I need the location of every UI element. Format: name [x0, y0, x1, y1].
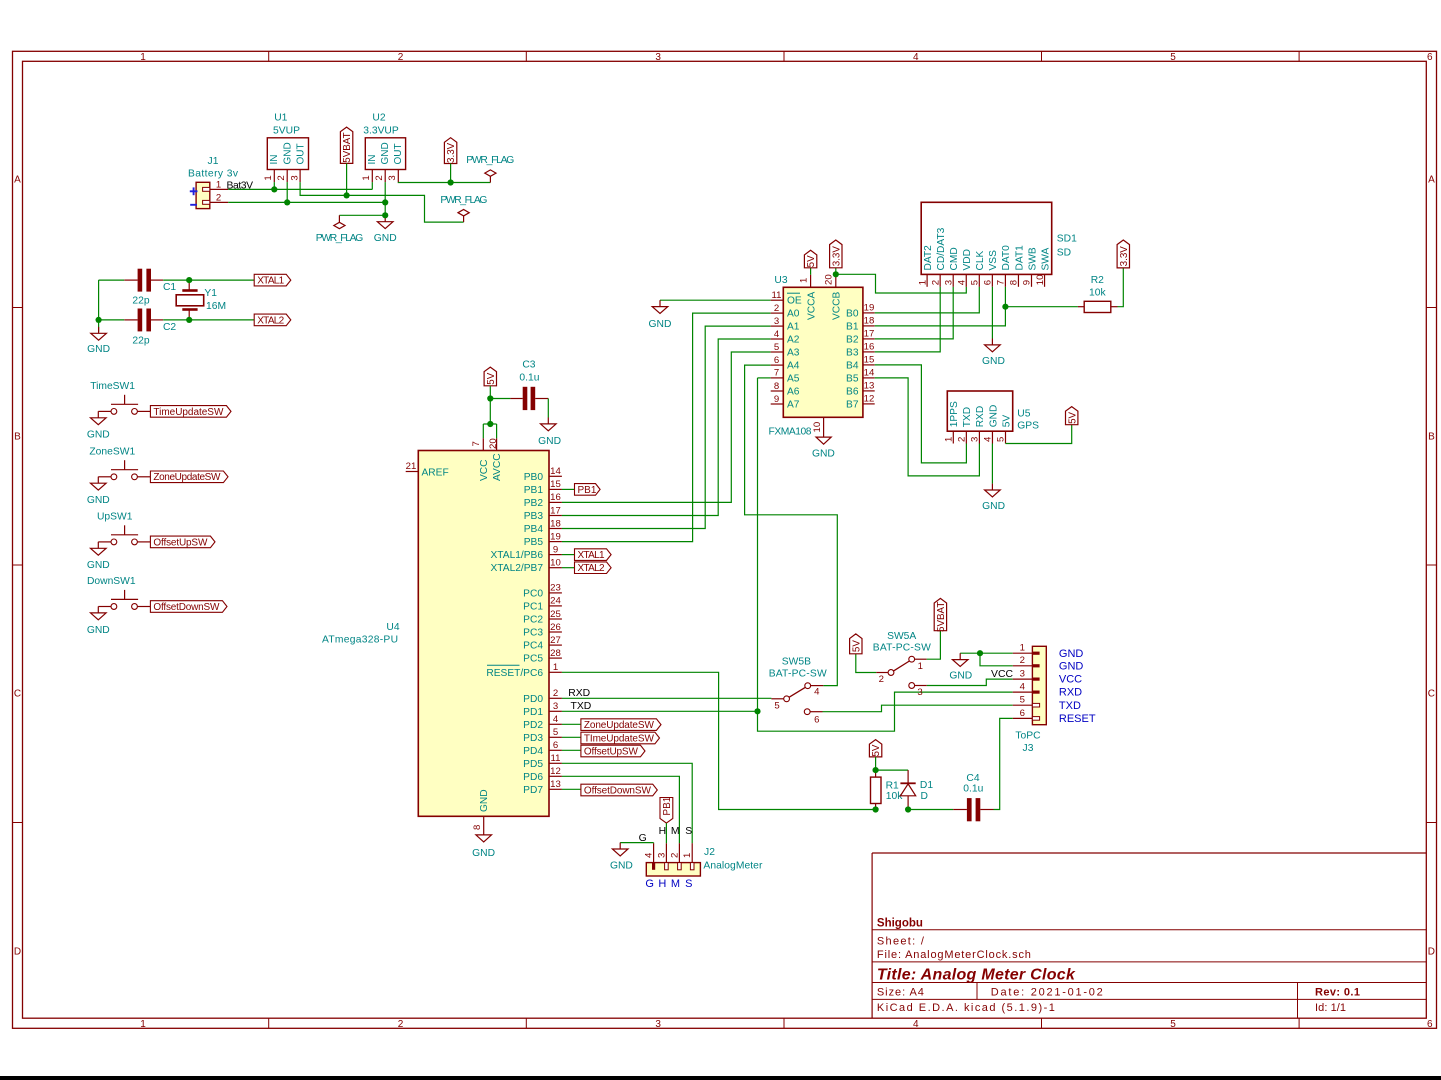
svg-text:OffsetUpSW: OffsetUpSW — [153, 537, 208, 548]
wire 5V to VCC/AVCC — [489, 386, 491, 424]
wire 5VBAT stem — [346, 163, 348, 195]
svg-text:B6: B6 — [846, 386, 859, 397]
wire B2 to SD1 CMD — [875, 287, 954, 339]
svg-text:PD2: PD2 — [523, 720, 543, 731]
svg-text:RXD: RXD — [568, 688, 590, 699]
svg-text:1: 1 — [553, 662, 558, 673]
label OffsetDownSW — [562, 788, 581, 790]
ground — [97, 607, 99, 613]
U3 pin 18 B1 — [863, 325, 875, 327]
svg-text:5: 5 — [774, 342, 779, 353]
svg-text:3: 3 — [655, 1019, 661, 1030]
svg-text:18: 18 — [550, 518, 561, 529]
svg-text:RXD: RXD — [975, 406, 986, 428]
svg-text:A4: A4 — [787, 361, 800, 372]
svg-text:C: C — [1428, 689, 1435, 700]
svg-text:GND: GND — [982, 356, 1005, 367]
wire PD0 RXD to SW5B.5 — [562, 697, 772, 699]
svg-text:TimeSW1: TimeSW1 — [90, 381, 135, 392]
U4 pin 7 VCC / pin 20 AVCC — [482, 438, 484, 450]
svg-text:2: 2 — [774, 303, 779, 314]
svg-text:RESET/PC6: RESET/PC6 — [486, 668, 543, 679]
label ZoneUpdateSW — [150, 471, 228, 483]
svg-text:A1: A1 — [787, 322, 800, 333]
svg-text:6: 6 — [774, 355, 779, 366]
svg-text:6: 6 — [1020, 708, 1025, 719]
svg-text:5V: 5V — [486, 372, 497, 384]
svg-text:16M: 16M — [206, 301, 226, 312]
svg-text:U5: U5 — [1017, 409, 1030, 420]
svg-text:7: 7 — [774, 368, 779, 379]
U4 pin 12 PD6 — [549, 775, 562, 777]
svg-text:PC4: PC4 — [523, 641, 543, 652]
svg-text:A3: A3 — [787, 348, 800, 359]
U3 pin 7 A5 — [771, 377, 784, 379]
svg-text:PD4: PD4 — [523, 746, 543, 757]
svg-text:4: 4 — [1020, 682, 1026, 693]
U4 pin 11 PD5 — [549, 762, 562, 764]
crystal Y1 16M — [188, 280, 190, 290]
svg-text:2: 2 — [669, 853, 680, 858]
SW5A pin 1 — [915, 658, 927, 660]
U5 pin 2 TXD — [965, 431, 967, 443]
wire RESET net — [562, 672, 876, 809]
svg-text:5V: 5V — [871, 744, 882, 756]
ground C3 — [547, 418, 549, 424]
wire VCCB to SD1 VDD — [836, 274, 967, 293]
svg-text:ToPC: ToPC — [1015, 731, 1041, 742]
SW5A pin 2 — [876, 672, 888, 674]
svg-text:Date: 2021-01-02: Date: 2021-01-02 — [991, 986, 1103, 998]
svg-text:D: D — [921, 791, 928, 802]
svg-text:9: 9 — [1022, 280, 1033, 285]
svg-text:2: 2 — [398, 1019, 404, 1030]
svg-text:4: 4 — [913, 1019, 919, 1030]
capacitor C2 — [99, 319, 125, 321]
svg-text:GND: GND — [649, 319, 672, 330]
svg-text:DAT2: DAT2 — [923, 245, 934, 271]
J3 pin 6 RESET — [1013, 717, 1033, 719]
svg-text:Sheet: /: Sheet: / — [877, 936, 925, 948]
svg-text:PC3: PC3 — [523, 628, 543, 639]
svg-text:GND: GND — [472, 848, 495, 859]
svg-text:SWB: SWB — [1027, 247, 1038, 270]
ground SD1 — [991, 339, 993, 345]
SD1 pin 8 DAT1 — [1017, 274, 1019, 286]
svg-text:5V: 5V — [806, 255, 817, 267]
svg-text:KiCad E.D.A. kicad (5.1.9)-1: KiCad E.D.A. kicad (5.1.9)-1 — [877, 1002, 1055, 1014]
svg-text:GND: GND — [87, 495, 110, 506]
U4 pin 28 PC5 — [549, 657, 562, 659]
junction dots power — [271, 186, 277, 192]
svg-text:OUT: OUT — [296, 143, 307, 164]
svg-text:3: 3 — [943, 280, 954, 285]
label XTAL2 (U4) — [562, 567, 575, 569]
svg-text:OUT: OUT — [393, 143, 404, 164]
label ZoneUpdateSW — [562, 723, 581, 725]
power symbol 3.3V (U3) — [830, 240, 842, 268]
svg-text:M: M — [671, 878, 680, 890]
svg-text:SW5A: SW5A — [887, 631, 916, 642]
diode D1 — [907, 770, 909, 783]
U4 pin 8 GND — [483, 816, 485, 835]
svg-text:1: 1 — [1020, 643, 1025, 654]
SD1 pin 3 CMD — [952, 274, 954, 286]
svg-text:1: 1 — [682, 853, 693, 858]
U3 pin 5 A3 — [771, 351, 784, 353]
SD1 pin 7 DAT0 — [1004, 274, 1006, 286]
svg-text:6: 6 — [553, 740, 558, 751]
PWR_FLAG (mid right) — [463, 216, 465, 222]
svg-text:UpSW1: UpSW1 — [97, 512, 133, 523]
ground U3 — [816, 437, 831, 444]
svg-text:BAT-PC-SW: BAT-PC-SW — [873, 643, 931, 654]
svg-text:D: D — [14, 947, 21, 958]
svg-text:7: 7 — [996, 280, 1007, 285]
svg-text:PD5: PD5 — [523, 759, 543, 770]
svg-text:GND: GND — [1059, 648, 1084, 660]
svg-text:GND: GND — [87, 344, 110, 355]
svg-text:6: 6 — [1427, 52, 1433, 63]
ground crystal — [98, 327, 100, 333]
capacitor C1 — [99, 279, 125, 281]
svg-text:PB2: PB2 — [524, 498, 544, 509]
svg-text:PD7: PD7 — [523, 785, 543, 796]
switch DownSW1 — [111, 604, 117, 610]
svg-text:4: 4 — [956, 279, 967, 285]
svg-text:1: 1 — [140, 52, 146, 63]
power symbol 3.3V (top) — [444, 138, 456, 164]
svg-text:S: S — [685, 826, 692, 837]
svg-text:PB5: PB5 — [524, 537, 544, 548]
U3 pin 15 B4 — [863, 364, 875, 366]
svg-text:B3: B3 — [846, 347, 859, 358]
wire PD6 to J2 M — [562, 776, 680, 843]
svg-text:GND: GND — [812, 448, 835, 459]
U4 pin 23 PC0 — [549, 592, 562, 594]
svg-text:8: 8 — [472, 825, 483, 830]
svg-text:3: 3 — [917, 687, 922, 698]
U4 pin 2 PD0 — [549, 697, 562, 699]
U4 pin 25 PC2 — [549, 618, 562, 620]
J3 pin 1 GND — [1013, 652, 1033, 654]
U3 pin 10 GND — [823, 417, 825, 437]
U3 pin 14 B5 — [863, 377, 875, 379]
svg-text:19: 19 — [864, 303, 875, 314]
svg-text:5V: 5V — [1067, 411, 1078, 423]
wire PD5 to J2 S — [562, 763, 692, 843]
svg-text:G: G — [645, 878, 654, 890]
svg-text:10k: 10k — [1089, 288, 1106, 299]
label XTAL2 — [254, 314, 291, 326]
svg-text:H: H — [658, 878, 666, 890]
U3 pin 19 B0 — [863, 312, 875, 314]
label XTAL1 — [254, 274, 291, 286]
label PB1 (U4) — [562, 488, 575, 490]
svg-text:3: 3 — [553, 701, 558, 712]
svg-text:Battery 3v: Battery 3v — [188, 169, 239, 180]
wire PB5 to U3 A0 — [562, 313, 771, 541]
U5 pin 4 GND — [991, 431, 993, 443]
svg-text:28: 28 — [550, 648, 561, 659]
power symbol 5V (at C3) — [484, 367, 496, 386]
svg-text:GND: GND — [87, 625, 110, 636]
U4 pin 19 PB5 — [549, 541, 562, 543]
svg-text:PWR_FLAG: PWR_FLAG — [440, 195, 487, 206]
U3 pin 16 B3 — [863, 351, 875, 353]
wire SD1 VSS to gnd — [991, 287, 993, 339]
svg-text:5VUP: 5VUP — [273, 126, 300, 137]
label OffsetDownSW — [150, 601, 227, 613]
svg-text:VSS: VSS — [988, 250, 999, 271]
SD1 pin 6 VSS — [991, 274, 993, 286]
ground OE — [659, 300, 661, 306]
SD1 pin 5 CLK — [978, 274, 980, 286]
svg-text:OffsetDownSW: OffsetDownSW — [584, 785, 652, 796]
svg-text:S: S — [685, 878, 692, 890]
svg-text:10: 10 — [812, 422, 823, 433]
connector J2 AnalogMeter — [646, 863, 700, 876]
ground — [97, 411, 99, 417]
connector J3 ToPC — [1032, 646, 1046, 724]
svg-text:4: 4 — [553, 714, 559, 725]
U2 pin3 3.3V out — [397, 170, 399, 183]
svg-text:GND: GND — [1059, 660, 1084, 672]
SW5B pin 4 — [811, 685, 824, 687]
ground U4 — [476, 835, 492, 842]
svg-text:R2: R2 — [1091, 275, 1104, 286]
U4 pin 3 PD1 — [549, 710, 562, 712]
svg-text:OffsetDownSW: OffsetDownSW — [153, 602, 220, 613]
capacitor C3 — [490, 398, 510, 400]
svg-text:2: 2 — [374, 175, 385, 180]
svg-text:5V: 5V — [851, 640, 862, 652]
wire SW5B.4 to U3 A4 — [745, 365, 838, 685]
wire U3 OE to gnd — [660, 299, 771, 301]
svg-text:TimeUpdateSW: TimeUpdateSW — [153, 407, 224, 418]
SD1 pin 10 SWA — [1044, 274, 1046, 286]
resistor R2 10k — [1005, 306, 1078, 308]
svg-text:RXD: RXD — [1059, 687, 1082, 699]
svg-text:PC0: PC0 — [523, 588, 543, 599]
U3 pin 2 A0 — [771, 312, 784, 314]
svg-text:IN: IN — [367, 155, 378, 165]
svg-text:RESET: RESET — [1059, 713, 1096, 725]
svg-text:PC1: PC1 — [523, 601, 543, 612]
svg-text:GND: GND — [479, 789, 490, 812]
svg-text:15: 15 — [864, 355, 875, 366]
SD1 pin 9 SWB — [1031, 274, 1033, 286]
svg-text:SW5B: SW5B — [782, 657, 811, 668]
J3 pin 3 VCC — [1013, 678, 1033, 680]
J3 pin 2 GND — [1013, 665, 1033, 667]
svg-text:B4: B4 — [846, 360, 859, 371]
svg-text:TXD: TXD — [1059, 700, 1081, 712]
svg-text:B: B — [1428, 432, 1435, 443]
J2 pin 2 — [678, 843, 680, 862]
svg-text:22p: 22p — [132, 296, 149, 307]
wire 5V to R1/D1 — [875, 757, 877, 770]
svg-text:J3: J3 — [1023, 743, 1034, 754]
svg-text:GND: GND — [949, 670, 972, 681]
svg-text:21: 21 — [406, 461, 417, 472]
svg-text:VCCB: VCCB — [832, 291, 843, 320]
svg-text:GND: GND — [380, 142, 391, 164]
svg-text:J1: J1 — [208, 156, 219, 167]
svg-text:CD/DAT3: CD/DAT3 — [936, 227, 947, 270]
svg-text:R1: R1 — [886, 780, 899, 791]
svg-text:A5: A5 — [787, 373, 800, 384]
svg-text:CMD: CMD — [949, 247, 960, 270]
svg-text:B0: B0 — [846, 308, 859, 319]
svg-text:A: A — [14, 175, 21, 186]
U3 pin 12 B7 — [863, 403, 875, 405]
U4 pin 14 PB0 — [549, 475, 562, 477]
U4 pin 17 PB3 — [549, 515, 562, 517]
J2 pin 4 — [653, 843, 655, 862]
svg-text:C4: C4 — [966, 773, 979, 784]
svg-text:PB0: PB0 — [524, 472, 544, 483]
J2 pin 3 — [665, 843, 667, 862]
U1 pin2 — [286, 170, 288, 183]
svg-text:Shigobu: Shigobu — [877, 918, 923, 930]
svg-text:GND: GND — [87, 430, 110, 441]
svg-text:GND: GND — [374, 233, 397, 244]
svg-text:0.1u: 0.1u — [519, 372, 539, 383]
svg-text:5VBAT: 5VBAT — [342, 132, 353, 162]
U2 pin1 — [371, 170, 373, 183]
svg-text:ATmega328-PU: ATmega328-PU — [322, 634, 398, 645]
switch TimeSW1 — [111, 409, 117, 415]
svg-text:1: 1 — [918, 661, 923, 672]
svg-text:5: 5 — [1170, 1019, 1176, 1030]
svg-text:IN: IN — [269, 155, 280, 165]
svg-text:7: 7 — [471, 441, 482, 446]
wire PD1 TXD — [562, 710, 758, 712]
svg-text:XTAL1/PB6: XTAL1/PB6 — [491, 550, 544, 561]
svg-text:2: 2 — [879, 674, 884, 685]
power symbol 5VBAT (SW5A) — [934, 598, 946, 630]
svg-text:ZoneUpdateSW: ZoneUpdateSW — [584, 720, 655, 731]
svg-text:9: 9 — [553, 544, 558, 555]
U5 pin 1 1PPS — [952, 431, 954, 443]
svg-text:22p: 22p — [132, 335, 149, 346]
wire U5 GND — [991, 444, 993, 484]
svg-text:1: 1 — [361, 175, 372, 180]
U3 pin 20 VCCB — [835, 274, 837, 287]
svg-text:PC5: PC5 — [523, 654, 543, 665]
U3 pin 11 OE — [771, 299, 784, 301]
svg-text:19: 19 — [550, 531, 561, 542]
svg-text:PWR_FLAG: PWR_FLAG — [466, 155, 514, 166]
svg-text:23: 23 — [550, 583, 561, 594]
connector J1 Battery 3v — [196, 182, 210, 208]
U3 pin 9 A7 — [771, 403, 784, 405]
U4 pin 5 PD3 — [549, 736, 562, 738]
svg-text:27: 27 — [550, 635, 561, 646]
U4 pin 18 PB4 — [549, 528, 562, 530]
wire SW5A.3 to J3 VCC — [927, 679, 1013, 685]
wire PB4 to U3 A1 — [562, 326, 771, 528]
svg-text:1: 1 — [140, 1019, 146, 1030]
svg-text:XTAL2: XTAL2 — [578, 563, 605, 574]
wire C3 to gnd — [547, 399, 549, 418]
wire SW5A.1 to 5VBAT — [927, 631, 941, 660]
svg-text:TXD: TXD — [571, 701, 592, 712]
svg-text:Rev: 0.1: Rev: 0.1 — [1315, 986, 1360, 998]
svg-text:SD1: SD1 — [1057, 234, 1077, 245]
label PB1 (J2, down) — [660, 798, 673, 824]
svg-text:AREF: AREF — [422, 467, 449, 478]
svg-text:4: 4 — [774, 329, 780, 340]
svg-text:VCC: VCC — [991, 669, 1013, 680]
U4 pin 1 RESET/PC6 — [549, 671, 562, 673]
wire crystal gnd — [98, 280, 100, 332]
svg-text:11: 11 — [772, 290, 782, 301]
svg-text:Y1: Y1 — [204, 288, 217, 299]
svg-text:PB1: PB1 — [524, 485, 544, 496]
bottom black strip — [0, 1076, 1441, 1080]
wire PB2 to U3 A3 — [562, 352, 771, 502]
U1 pin3 / 5VBAT rail — [299, 170, 301, 183]
svg-text:13: 13 — [550, 779, 561, 790]
svg-text:C1: C1 — [163, 282, 176, 293]
SD1 pin 4 VDD — [965, 274, 967, 286]
svg-text:OffsetUpSW: OffsetUpSW — [584, 746, 639, 757]
wire B1 to SD1 DAT0 and R2 — [875, 287, 1006, 326]
svg-text:TXD: TXD — [962, 407, 973, 427]
label OffsetUpSW — [562, 749, 581, 751]
switch UpSW1 — [111, 539, 117, 545]
svg-text:4: 4 — [644, 852, 655, 858]
power symbol 5VBAT — [340, 127, 352, 163]
svg-text:GND: GND — [982, 501, 1005, 512]
wire SW5A.2 to 5V — [856, 654, 876, 673]
svg-text:1: 1 — [799, 278, 810, 283]
svg-text:CLK: CLK — [975, 250, 986, 270]
svg-text:3.3V: 3.3V — [1119, 246, 1130, 267]
SW5B pin 5 — [771, 698, 783, 700]
svg-text:Title: Analog Meter Clock: Title: Analog Meter Clock — [877, 967, 1076, 984]
svg-text:A0: A0 — [787, 309, 800, 320]
svg-text:A2: A2 — [787, 335, 800, 346]
wire J2 G to gnd — [620, 842, 653, 844]
svg-text:Size: A4: Size: A4 — [877, 986, 924, 998]
resistor R1 10k — [875, 770, 877, 777]
svg-text:17: 17 — [864, 329, 875, 340]
switch ZoneSW1 — [111, 474, 117, 480]
svg-text:J2: J2 — [704, 847, 715, 858]
svg-text:B2: B2 — [846, 334, 859, 345]
svg-text:B: B — [14, 432, 21, 443]
svg-text:DownSW1: DownSW1 — [87, 576, 136, 587]
label XTAL1 (U4) — [562, 554, 575, 556]
U3 pin 4 A2 — [771, 338, 784, 340]
U4 pin 6 PD4 — [549, 749, 562, 751]
wire J3 pin6 RESET to C4 — [994, 718, 1013, 809]
ground — [97, 542, 99, 548]
svg-text:A: A — [1428, 175, 1435, 186]
svg-text:3.3V: 3.3V — [831, 246, 842, 267]
wire U5 5V — [1006, 425, 1072, 444]
PWR_FLAG (right of U2) — [489, 176, 491, 182]
svg-text:3: 3 — [655, 52, 661, 63]
J3 pin 5 TXD — [1013, 704, 1033, 706]
capacitor C4 — [908, 809, 953, 811]
svg-text:U4: U4 — [386, 622, 399, 633]
SW5B pin 6 — [810, 711, 822, 713]
svg-text:2: 2 — [276, 175, 287, 180]
